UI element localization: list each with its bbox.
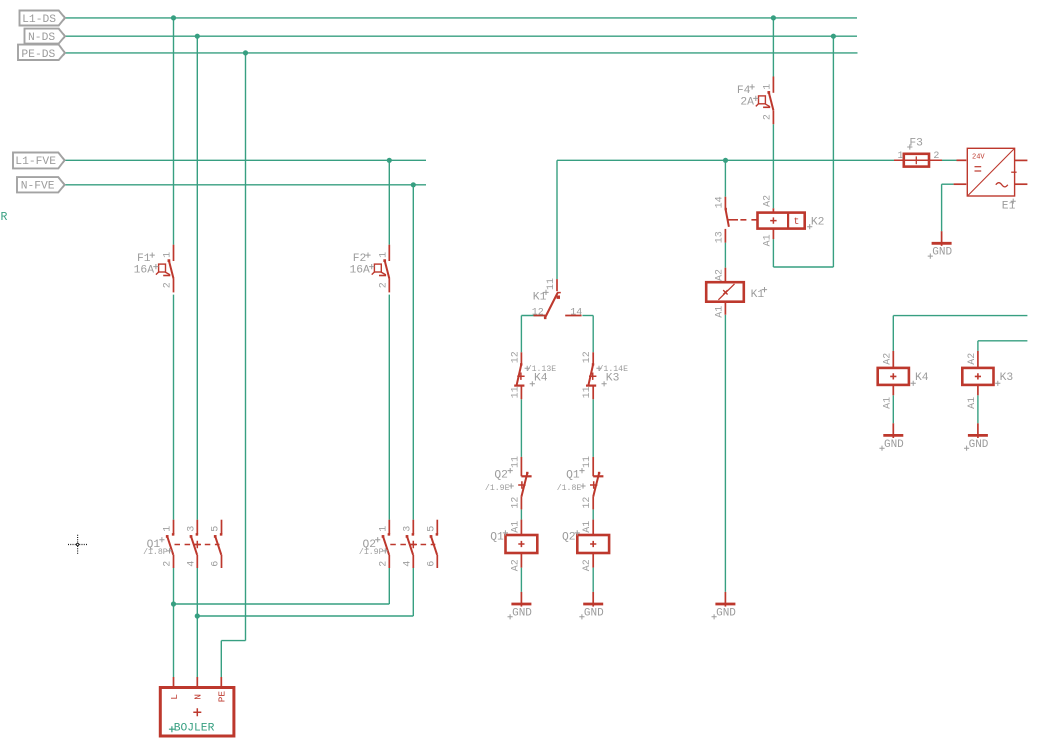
svg-text:4: 4 <box>402 561 413 567</box>
wire K4 feed drop <box>892 316 894 351</box>
NC aux contact Q1 (/1.8E) <box>557 456 604 509</box>
svg-text:A2: A2 <box>510 559 521 571</box>
svg-text:16A: 16A <box>134 265 155 277</box>
svg-text:GND: GND <box>512 607 532 619</box>
svg-text:1: 1 <box>163 252 174 258</box>
mechanical link dashes K1-K2 <box>740 219 757 221</box>
ground GND under K1 coil <box>712 592 737 620</box>
svg-text:GND: GND <box>969 439 989 451</box>
svg-text:A1: A1 <box>582 521 593 533</box>
wire L1 drop to F1 <box>173 18 175 245</box>
svg-text:11: 11 <box>582 386 593 398</box>
wire Q2 pole1 to L node <box>174 603 390 605</box>
relay coil K1 <box>706 268 767 318</box>
svg-text:N-FVE: N-FVE <box>21 181 55 193</box>
svg-text:2: 2 <box>762 114 773 120</box>
contactor Q2 pole 1-2 <box>378 520 390 568</box>
wire Q2 pole2 down <box>412 568 414 616</box>
svg-text:N: N <box>193 694 204 700</box>
svg-text:GND: GND <box>716 607 736 619</box>
net flag L1-FVE <box>13 153 65 169</box>
circuit breaker F2 (16A) <box>349 245 389 293</box>
svg-text:GND: GND <box>932 247 952 259</box>
contactor Q1 pole 1-2 <box>163 520 175 568</box>
wire L1 drop to F4 <box>772 18 774 77</box>
svg-text:16A: 16A <box>349 265 370 277</box>
BOJLER load box <box>160 677 234 736</box>
wire L1-FVE right <box>557 159 894 161</box>
wire E1 minus jog <box>942 183 954 185</box>
wire F2 to Q2 pole1 <box>388 295 390 520</box>
junction N-FVE <box>411 182 416 187</box>
svg-text:11: 11 <box>510 386 521 398</box>
svg-text:12: 12 <box>582 497 593 509</box>
svg-text:5: 5 <box>211 526 222 532</box>
wire right branch down to K3 contact <box>592 316 594 353</box>
wire N-FVE drop to Q2 pole2 <box>412 185 414 520</box>
svg-text:5: 5 <box>426 526 437 532</box>
junction L1-FVE <box>387 158 392 163</box>
wire E1 minus down to GND <box>941 184 943 231</box>
wire PE-DS bus <box>65 52 858 54</box>
wire K1 contact to K1 coil <box>724 243 726 268</box>
relay coil Q1 <box>490 520 537 572</box>
wire Q1 pole2 to BOJLER N <box>196 568 198 677</box>
svg-text:12: 12 <box>510 497 521 509</box>
svg-text:A2: A2 <box>967 353 978 365</box>
svg-text:2: 2 <box>933 151 939 162</box>
svg-text:F3: F3 <box>909 138 923 150</box>
wire PE jog <box>221 640 245 642</box>
wire N-DS bus <box>65 35 857 37</box>
wire L1-DS bus <box>65 17 857 19</box>
svg-text:2: 2 <box>378 282 389 288</box>
net flag PE-DS <box>18 45 66 61</box>
svg-text:12: 12 <box>582 351 593 363</box>
wire Q1 coil to GND <box>520 568 522 592</box>
svg-text:t: t <box>794 216 800 227</box>
svg-text:Q2: Q2 <box>494 470 508 482</box>
wire Q1 pole1 to BOJLER L <box>173 568 175 677</box>
wire L1-FVE drop to K1 NO contact <box>724 160 726 196</box>
wire left branch down to K4 contact <box>520 316 522 353</box>
svg-text:2: 2 <box>163 561 174 567</box>
junction L1-FVE right <box>723 158 728 163</box>
wire K4 feed horizontal <box>893 315 1027 317</box>
svg-text:F2: F2 <box>353 253 367 265</box>
relay coil K4 <box>878 351 929 409</box>
svg-text:K4: K4 <box>534 372 548 384</box>
svg-text:4: 4 <box>186 561 197 567</box>
wire K3 feed horizontal <box>978 340 1028 342</box>
svg-text:R: R <box>1 211 8 224</box>
svg-text:PE: PE <box>217 691 228 703</box>
svg-text:F1: F1 <box>137 253 151 265</box>
svg-text:GND: GND <box>884 439 904 451</box>
ground GND under E1 <box>928 231 953 259</box>
svg-text:14: 14 <box>570 307 582 318</box>
svg-text:11: 11 <box>582 456 593 468</box>
svg-text:Q1: Q1 <box>566 470 580 482</box>
svg-text:6: 6 <box>426 561 437 567</box>
junction PE-DS <box>243 50 248 55</box>
NO contact K1 13/14 <box>714 196 738 243</box>
wire L1-FVE corner down to K1 contact <box>556 160 558 279</box>
svg-text:L1-DS: L1-DS <box>22 14 56 26</box>
Q1 linkage dashed line <box>175 541 220 548</box>
svg-text:/1.8P: /1.8P <box>143 547 168 557</box>
svg-text:1: 1 <box>163 526 174 532</box>
ground GND under Q1 coil <box>508 592 533 620</box>
ground GND under Q2 coil <box>579 592 604 620</box>
svg-text:A1: A1 <box>762 234 773 246</box>
junction L1-DS <box>171 15 176 20</box>
wire PE drop <box>245 53 247 641</box>
svg-text:11: 11 <box>510 456 521 468</box>
svg-text:K2: K2 <box>811 217 825 229</box>
contactor Q2 pole 3-4 <box>402 520 414 568</box>
svg-text:2: 2 <box>378 561 389 567</box>
wire K2 A1 down <box>772 239 774 267</box>
wire F1 to Q1 pole1 <box>173 295 175 520</box>
svg-text:K3: K3 <box>606 372 620 384</box>
svg-text:/1.8E: /1.8E <box>557 483 582 493</box>
svg-text:6: 6 <box>211 561 222 567</box>
junction N node <box>195 613 200 618</box>
timer relay coil K2 <box>758 195 825 247</box>
wire K3 coil to GND <box>977 395 979 423</box>
wire Q2 pole1 down <box>388 568 390 604</box>
svg-text:13: 13 <box>714 231 725 243</box>
relay coil Q2 <box>562 520 609 572</box>
wire K1-12 jog <box>521 315 546 317</box>
wire N drop to Q1 pole2 <box>196 36 198 520</box>
svg-text:14: 14 <box>714 196 725 208</box>
svg-text:A2: A2 <box>714 269 725 281</box>
junction N-DS right <box>831 34 836 39</box>
wire Q2 coil to GND <box>592 568 594 592</box>
ground GND under K4 coil <box>879 423 904 451</box>
NC contact K3 (/1.14E) <box>582 351 628 399</box>
svg-text:Q1: Q1 <box>490 532 504 544</box>
junction N-DS <box>195 34 200 39</box>
wire L1-FVE drop to F2 <box>388 160 390 244</box>
svg-text:12: 12 <box>510 351 521 363</box>
svg-text:/1.9P: /1.9P <box>359 547 384 557</box>
svg-text:A2: A2 <box>762 195 773 207</box>
wire K3 to Q1 aux <box>592 399 594 457</box>
svg-text:A2: A2 <box>882 353 893 365</box>
cursor crosshair <box>68 535 87 554</box>
junction L node <box>171 601 176 606</box>
svg-text:PE-DS: PE-DS <box>21 49 55 61</box>
net flag N-DS <box>25 29 66 44</box>
wire K1 coil A1 to GND <box>724 315 726 592</box>
svg-text:1: 1 <box>378 252 389 258</box>
wire K4 coil to GND <box>892 395 894 423</box>
NC contact K4 (/1.13E) <box>510 351 556 399</box>
wire Q2 aux to Q1 coil <box>520 509 522 519</box>
svg-text:Q2: Q2 <box>562 532 576 544</box>
net flag L1-DS <box>20 11 66 26</box>
label Q2 main <box>359 537 388 557</box>
fuse F3 <box>894 138 942 167</box>
wire K1-14 jog <box>582 315 593 317</box>
svg-text:N-DS: N-DS <box>28 32 55 44</box>
svg-text:2A: 2A <box>740 97 754 109</box>
changeover contact K1 (11/12/14) <box>532 278 582 319</box>
svg-text:12: 12 <box>532 307 544 318</box>
svg-text:A1: A1 <box>510 521 521 533</box>
svg-text:F4: F4 <box>737 85 751 97</box>
wire F4 to K2 coil A2 <box>772 124 774 208</box>
wire PE to BOJLER <box>220 641 222 677</box>
wire K3 feed drop <box>977 341 979 351</box>
svg-text:A2: A2 <box>582 559 593 571</box>
svg-text:A1: A1 <box>714 306 725 318</box>
ground GND under K3 coil <box>964 423 989 451</box>
contactor Q1 pole 3-4 <box>186 520 198 568</box>
power supply E1 (24V) <box>954 148 1028 212</box>
wire Q1 aux to Q2 coil <box>592 509 594 519</box>
svg-text:/1.9E: /1.9E <box>485 483 510 493</box>
svg-text:1: 1 <box>378 526 389 532</box>
svg-text:2: 2 <box>163 282 174 288</box>
svg-text:3: 3 <box>402 526 413 532</box>
wire N-FVE <box>65 184 427 186</box>
contactor Q2 pole 5-6 <box>426 520 438 568</box>
Q2 linkage dashed line <box>390 541 435 548</box>
svg-text:11: 11 <box>546 278 557 290</box>
svg-text:BOJLER: BOJLER <box>174 723 215 735</box>
svg-text:K3: K3 <box>1000 372 1014 384</box>
relay coil K3 <box>962 351 1013 409</box>
svg-text:L: L <box>169 694 180 700</box>
svg-text:A1: A1 <box>967 397 978 409</box>
wire K4 to Q2 aux <box>520 399 522 457</box>
wire up to N-DS <box>832 36 834 267</box>
svg-text:K4: K4 <box>915 372 929 384</box>
svg-text:3: 3 <box>186 526 197 532</box>
label Q1 main <box>143 537 172 557</box>
svg-text:1: 1 <box>762 84 773 90</box>
contactor Q1 pole 5-6 <box>211 520 223 568</box>
wire L1-FVE left <box>65 159 427 161</box>
svg-text:K1: K1 <box>751 289 765 301</box>
svg-text:1: 1 <box>898 151 904 162</box>
svg-text:GND: GND <box>584 607 604 619</box>
svg-text:24V: 24V <box>972 154 985 162</box>
svg-text:L1-FVE: L1-FVE <box>15 156 56 168</box>
junction L1-DS right <box>771 15 776 20</box>
NC aux contact Q2 (/1.9E) <box>485 456 532 509</box>
svg-text:K1: K1 <box>533 291 547 303</box>
circuit breaker F1 (16A) <box>134 245 174 293</box>
svg-text:A1: A1 <box>882 397 893 409</box>
wire K2 A1 jog right <box>773 266 833 268</box>
net flag N-FVE <box>17 177 65 193</box>
wire F3 to E1 <box>942 159 957 161</box>
wire Q2 pole2 to N node <box>197 615 413 617</box>
circuit breaker F4 (2A) <box>737 77 774 125</box>
